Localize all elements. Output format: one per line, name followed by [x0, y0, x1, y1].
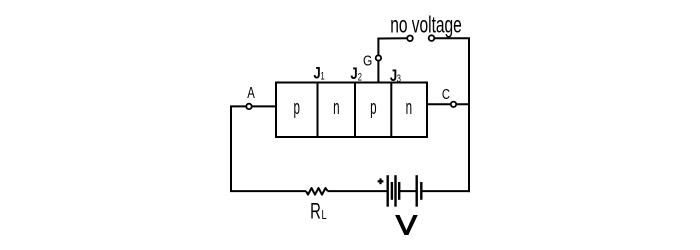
- battery V: cell plates group 1: [388, 175, 400, 207]
- label J2: [350, 65, 362, 84]
- svg-text:A: A: [247, 83, 255, 101]
- switch right contact circle: [429, 35, 435, 41]
- svg-text:J: J: [390, 66, 397, 85]
- battery plus sign: [378, 178, 384, 184]
- junction J2 divider: [354, 83, 356, 138]
- wire: right vertical from switch down to bottom rail: [468, 38, 470, 192]
- wire: bottom rail middle segment (resistor to battery): [328, 190, 388, 192]
- svg-text:no voltage: no voltage: [390, 13, 462, 39]
- wire: switch left lead: [377, 37, 407, 39]
- wire: left vertical from node A down to bottom rail: [230, 106, 232, 191]
- battery V: cell plates group 2: [417, 175, 422, 207]
- switch left contact circle: [407, 36, 413, 42]
- svg-text:R: R: [310, 200, 321, 225]
- svg-text:n: n: [406, 97, 412, 119]
- svg-text:J: J: [313, 64, 320, 83]
- svg-text:2: 2: [358, 70, 362, 83]
- node C terminal circle: [451, 102, 456, 107]
- svg-text:J: J: [350, 65, 357, 84]
- wire: bottom rail right segment (battery to right vertical): [421, 190, 470, 192]
- wire: battery inter-cell link: [399, 190, 417, 192]
- junction J3 divider: [390, 83, 392, 138]
- wire: gate vertical from switch corner through node G into box: [377, 39, 379, 83]
- wire: node A horizontal to pnpn box: [230, 105, 276, 107]
- wire: switch right lead: [434, 37, 470, 39]
- node G terminal circle: [376, 55, 381, 60]
- node A terminal circle: [246, 104, 251, 109]
- label J1: [313, 64, 324, 83]
- svg-text:V: V: [396, 210, 417, 241]
- svg-text:C: C: [442, 86, 450, 103]
- svg-text:G: G: [363, 52, 372, 69]
- pnpn device outer box: [276, 83, 427, 138]
- svg-text:p: p: [370, 97, 376, 119]
- junction J1 divider: [317, 83, 319, 138]
- svg-text:3: 3: [397, 71, 401, 84]
- wire: bottom rail left segment (to resistor RL): [230, 190, 306, 192]
- svg-text:n: n: [333, 97, 339, 119]
- resistor RL zigzag: [306, 188, 328, 195]
- wire: pnpn box to node C and right vertical: [427, 103, 470, 105]
- label J3: [390, 66, 401, 85]
- svg-text:p: p: [293, 97, 299, 119]
- svg-text:L: L: [321, 209, 326, 223]
- label RL: [310, 200, 326, 225]
- svg-text:1: 1: [321, 69, 325, 82]
